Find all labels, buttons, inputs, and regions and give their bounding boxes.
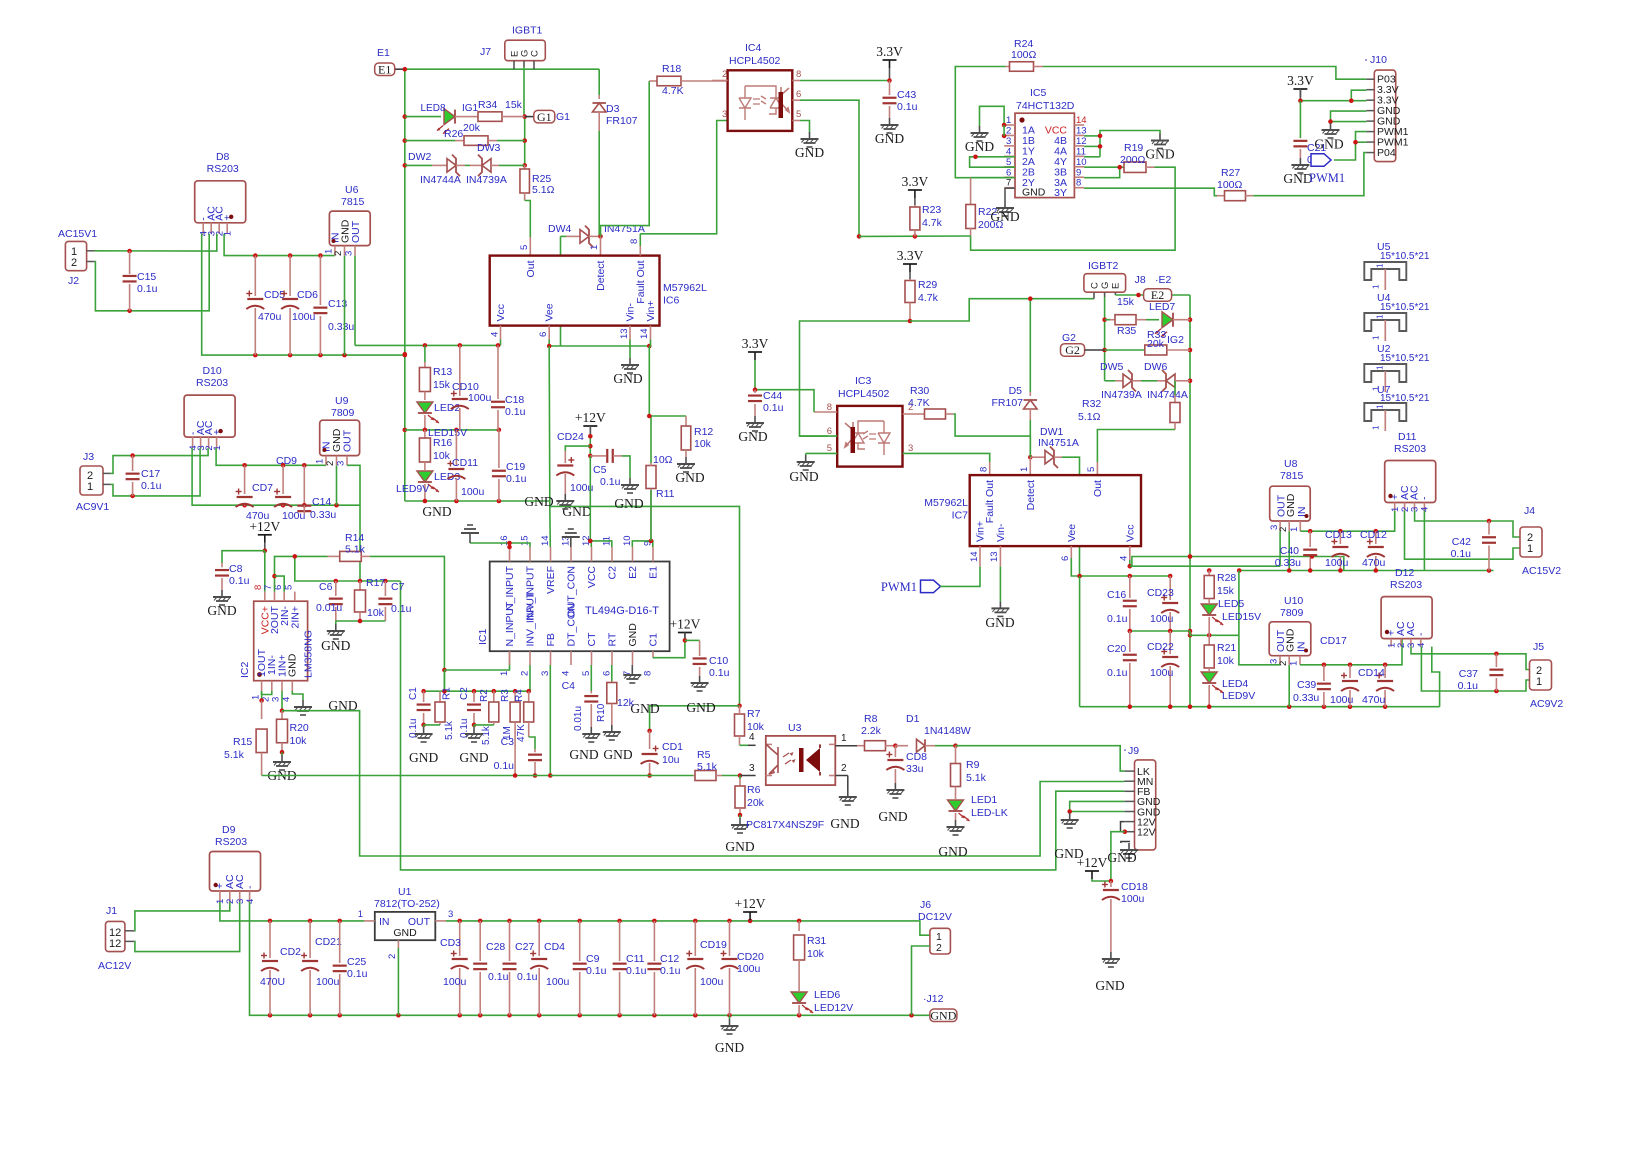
connector J9 [1135,760,1156,850]
IC3 interior optocoupler glyphs [845,421,890,455]
svg-text:GND: GND [1314,137,1343,152]
svg-text:Detect: Detect [1025,480,1037,510]
wire detect pin1 IC6 [600,236,602,255]
capacitor CD2 470U [269,921,271,958]
wire J10 GND pins [1331,111,1367,123]
svg-text:U9: U9 [335,395,349,407]
svg-text:G1: G1 [537,110,552,124]
svg-text:D12: D12 [1395,567,1414,579]
svg-text:Fault Out: Fault Out [635,260,647,303]
svg-text:LED2: LED2 [434,402,460,414]
svg-text:GND: GND [789,469,818,484]
svg-text:GND: GND [795,145,824,160]
svg-text:2: 2 [936,942,942,954]
svg-text:3: 3 [448,909,453,920]
wire D1 to LK node [935,745,956,747]
svg-text:GND: GND [569,747,598,762]
capacitor C42 0.1u [1488,521,1490,535]
svg-text:14: 14 [1076,115,1087,126]
svg-text:CD8: CD8 [906,751,927,763]
svg-text:D11: D11 [1398,431,1417,443]
svg-text:14: 14 [639,328,650,339]
svg-text:DW2: DW2 [408,151,431,163]
svg-text:R11: R11 [656,488,675,500]
regulator U9 7809 [320,420,360,455]
wire U10 IN rail from D12 [1300,640,1402,665]
wire PWM1 to J10 [1334,132,1366,160]
svg-text:GND: GND [725,839,754,854]
resistor R6 20k [739,776,741,780]
resistor R25 5.1R [524,165,526,170]
svg-text:IN4739A: IN4739A [466,174,507,186]
svg-text:IN4739A: IN4739A [1101,389,1142,401]
svg-text:2IN+: 2IN+ [290,606,302,628]
capacitor C13 0.33u [319,256,321,305]
zener DW2 IN4744A [405,164,432,166]
svg-text:R31: R31 [807,935,826,947]
wire D9 minus to GND rail [250,902,930,1015]
wire IC5 pin10,9 tie to R19 [1084,166,1124,168]
svg-text:10k: 10k [367,607,385,619]
ground CD18 [1110,952,1112,959]
svg-text:GND: GND [321,638,350,653]
svg-text:0.1u: 0.1u [488,971,509,983]
svg-text:R4: R4 [514,689,525,702]
IC IC6 M57962L box [490,256,660,326]
ground C43 [889,118,891,125]
svg-text:GND: GND [627,623,639,647]
capacitor CD5 470u [254,256,256,296]
svg-text:PWM1: PWM1 [881,580,917,594]
svg-text:0.1u: 0.1u [494,760,515,772]
svg-text:OUT: OUT [1275,494,1287,517]
svg-text:100u: 100u [1150,613,1174,625]
wire R32 to IC7 Out pin5 [1097,430,1175,463]
bridge rectifier D9 RS203 [210,852,261,892]
svg-text:R30: R30 [910,385,929,397]
capacitor CD24 100u [565,446,590,451]
svg-text:0.1u: 0.1u [506,473,527,485]
connector J1 AC12V [106,921,125,951]
svg-text:1: 1 [1289,527,1300,532]
LED LED3 [417,471,433,482]
svg-text:15k: 15k [433,379,451,391]
svg-text:R20: R20 [290,722,309,734]
svg-text:0.1u: 0.1u [586,965,607,977]
svg-text:Vin+: Vin+ [975,521,987,542]
svg-text:C42: C42 [1452,536,1471,548]
svg-text:GND: GND [738,429,767,444]
resistor R3 1M [514,691,516,702]
power flag +12V bottom [743,911,757,913]
power flag 3.3V J10 [1293,88,1307,90]
svg-text:IN: IN [379,916,390,928]
svg-text:C10: C10 [709,655,728,667]
capacitor C20 0.1u [1129,631,1131,652]
resistor R29 4.7k + 3.3V flag [903,263,917,265]
svg-text:HCPL4502: HCPL4502 [838,388,890,400]
resistor R9 5.1k [955,746,957,763]
svg-text:GND: GND [830,816,859,831]
svg-text:14: 14 [540,535,551,546]
resistor R18 4.7K [601,81,650,236]
power flag +12V C10 [678,632,692,634]
svg-text:C18: C18 [505,394,524,406]
wire TL494 pin6 RT to R10 [611,665,613,681]
svg-text:CD14: CD14 [1358,667,1385,679]
svg-text:C12: C12 [660,953,679,965]
IC2 bottom pin stubs [261,681,263,691]
svg-text:GND: GND [985,615,1014,630]
svg-text:2: 2 [333,251,344,256]
wire 12V to +12V CD18 [1111,832,1125,881]
wire U1 GND to rail [397,948,399,1015]
svg-text:1: 1 [1375,365,1384,370]
svg-text:R28: R28 [1217,572,1236,584]
svg-text:GND: GND [459,750,488,765]
resistor R22 200R [970,178,972,205]
svg-text:CD1: CD1 [662,741,683,753]
wire TL494 pin5 CT to C4 [590,665,592,691]
wire Vee riser to 0V rail [1079,576,1081,707]
svg-text:3.3V: 3.3V [902,174,929,189]
wire IC6 Vin- pin13 to GND [629,340,631,359]
bridge rectifier D11 RS203 [1385,461,1436,503]
svg-text:GND: GND [938,844,967,859]
svg-text:CD11: CD11 [452,457,478,469]
svg-text:GND: GND [1095,978,1124,993]
svg-text:G2: G2 [1062,332,1076,344]
wire LK row to J9 [956,746,1125,771]
net flag GND J12 [930,1009,957,1022]
wire IC3 pin5 to GND [806,452,838,454]
svg-text:5.1k: 5.1k [481,725,492,745]
wire IC4 pin6 row to collector column [792,99,800,101]
svg-text:4.7k: 4.7k [918,292,939,304]
wire R20 node to MN bus [282,711,1124,856]
svg-text:AC15V1: AC15V1 [58,228,97,240]
wire LED9V rail [405,501,740,706]
wire IC7 Vin- to GND [999,567,1001,602]
wire J2 pin1 rail [95,234,217,251]
svg-text:GND: GND [524,494,553,509]
svg-text:IC5: IC5 [1030,87,1047,99]
wire U10 GND to 0V rail [1288,665,1290,707]
svg-text:+12V: +12V [669,617,700,632]
svg-text:J8: J8 [1135,274,1146,286]
svg-text:CD20: CD20 [737,951,764,963]
ground C21 [1299,158,1301,165]
svg-text:C20: C20 [1107,643,1126,655]
capacitor CD14 470u [1384,665,1386,678]
svg-text:3.3V: 3.3V [1287,73,1314,88]
svg-text:GND: GND [603,747,632,762]
resistor R10 12k [611,681,613,683]
svg-text:IGBT2: IGBT2 [1088,260,1119,272]
svg-text:200Ω: 200Ω [1120,154,1146,166]
svg-text:-: - [1419,496,1431,500]
svg-text:R35: R35 [1117,325,1136,337]
wire J9 12V pins bracket [1121,822,1125,832]
IC IC4 HCPL4502 box [728,70,793,131]
svg-text:1: 1 [1289,661,1300,666]
wire emitter row E1 [405,68,599,70]
svg-text:12: 12 [109,938,121,950]
svg-text:R14: R14 [345,532,364,544]
power flag +12V C8 [258,534,272,536]
bridge rectifier D8 RS203 [195,181,246,223]
capacitor C8 0.1u [221,563,223,567]
svg-text:LED7: LED7 [1149,301,1175,313]
capacitor C44 0.1u + 3.3V [748,351,762,353]
wire J3 pin1 rail [111,448,201,496]
svg-text:3.3V: 3.3V [897,248,924,263]
svg-text:D5: D5 [1009,385,1023,397]
svg-text:LED6: LED6 [814,989,840,1001]
capacitor CD21 100u [309,921,311,958]
wire J9 GND pins [1070,801,1125,811]
svg-text:CD3: CD3 [440,937,461,949]
svg-text:IC4: IC4 [745,42,762,54]
resistor R4 47K [528,691,530,702]
wire IC3 pin6 row [800,435,838,437]
wire IC6 Vcc pin4 to +15V rail [500,340,502,346]
svg-text:3: 3 [908,443,913,454]
IC2 top pin stubs [264,592,266,602]
svg-text:1: 1 [499,671,510,676]
svg-text:5.1Ω: 5.1Ω [532,184,555,196]
wire riser 15V2 0V to LED rail [1238,571,1240,636]
resistor R28 15k [1208,571,1210,576]
svg-text:6: 6 [1060,556,1071,561]
capacitor C21 0.1u [1299,101,1301,138]
svg-text:R5: R5 [697,749,711,761]
wire IGBT1 pins [513,61,515,69]
svg-text:10k: 10k [807,948,825,960]
svg-text:1: 1 [1375,263,1384,268]
svg-text:0.1u: 0.1u [505,406,526,418]
wire IC6 Vee pin6 [548,340,550,347]
svg-text:R2: R2 [479,689,490,702]
junction dot R7 top [737,704,742,709]
svg-text:LED15V: LED15V [1222,611,1261,623]
ground R12 [685,457,687,464]
svg-text:0.1u: 0.1u [347,968,368,980]
resistor R34 15k [462,116,478,118]
IC4 interior optocoupler glyphs [739,86,789,120]
svg-text:R27: R27 [1221,167,1240,179]
wire TL494 pin1 net down [443,670,445,691]
svg-text:10Ω: 10Ω [653,454,673,466]
wire +12V to C8 [222,551,265,563]
capacitor C7 0.1u [384,581,386,596]
regulator U1 7812 [375,912,436,940]
svg-text:10k: 10k [290,735,308,747]
svg-text:20k: 20k [747,797,765,809]
svg-text:7815: 7815 [1280,470,1304,482]
svg-text:·E2: ·E2 [1155,274,1172,286]
svg-text:11: 11 [1076,146,1086,157]
capacitor C3 0.1u [529,737,535,749]
ground R10 [611,725,613,732]
connector J3 AC9V1 [80,466,103,495]
svg-text:J9: J9 [1128,745,1139,757]
wire U3 pin1 to R8 [835,745,857,747]
wire R7 to U3 pin4 [748,744,756,746]
svg-text:2: 2 [1006,125,1011,136]
svg-text:IG1: IG1 [462,103,479,114]
svg-text:0.1u: 0.1u [1107,667,1128,679]
connector J6 DC12V [930,928,951,954]
zener DW1 IN4751A [1030,456,1045,458]
svg-text:2: 2 [841,763,847,774]
svg-text:-: - [244,885,256,889]
diode D5 FR107 [1029,299,1031,392]
LED LED4 [1201,672,1217,683]
wire G2 column [1104,297,1106,381]
svg-text:GND: GND [287,653,299,677]
wire jog to LED rail [1190,631,1239,635]
rail C6 bottom to GND [336,620,386,622]
wire +12V to IC2 VCC pin8 [264,551,266,592]
LED LED8 [405,116,441,118]
svg-text:Vee: Vee [1066,524,1078,542]
svg-text:R15: R15 [233,736,252,748]
IC IC7 M57962L box [970,475,1141,546]
svg-text:Vin-: Vin- [995,523,1007,542]
svg-text:3: 3 [344,251,355,256]
svg-text:0.1u: 0.1u [600,476,621,488]
capacitor CD18 100u [1110,881,1112,887]
svg-text:C19: C19 [506,461,525,473]
svg-text:Vcc: Vcc [495,304,507,322]
svg-text:1: 1 [1375,404,1384,409]
svg-text:R23: R23 [922,204,941,216]
resistor R12 10k [685,416,687,426]
resistor R16 10k [424,430,426,438]
wire D11 plus to U8 IN rail [1300,511,1394,532]
svg-text:4.7K: 4.7K [662,85,684,97]
svg-text:10k: 10k [433,450,451,462]
connector J5 AC9V2 [1530,660,1552,690]
svg-text:4: 4 [1119,556,1130,561]
ground C4 [590,727,592,734]
svg-text:0.1u: 0.1u [1458,680,1479,692]
capacitor C10 0.1u [685,639,700,641]
resistor R19 200R [1124,162,1146,173]
capacitor C17 0.1u [132,456,134,471]
capacitor CD4 100u [538,921,540,956]
net flag PWM1 to Vin+ [921,580,941,593]
svg-text:15k: 15k [1217,585,1235,597]
svg-text:12k: 12k [617,697,635,709]
svg-text:14: 14 [969,551,980,562]
svg-text:5.1Ω: 5.1Ω [1078,411,1101,423]
wire divider rail to FB bus [401,581,1125,870]
wire IGBT2 pins [1093,292,1095,299]
svg-text:470u: 470u [1362,694,1386,706]
svg-text:GND: GND [422,504,451,519]
capacitor C27 0.1u [509,921,511,961]
capacitor CD8 33u [894,746,896,757]
svg-text:GND: GND [1145,147,1174,162]
svg-text:Out: Out [525,260,537,277]
wire TL494 pin14 VREF to rail [549,506,552,547]
svg-text:7809: 7809 [331,407,355,419]
svg-text:C28: C28 [486,941,505,953]
wire IC3 pin3 to IC7 fault pin8 [903,453,990,462]
svg-text:100u: 100u [316,976,340,988]
svg-text:1: 1 [358,909,363,920]
svg-text:2: 2 [387,954,398,959]
LED LED7 [1146,319,1159,321]
svg-text:100u: 100u [1150,667,1174,679]
resistor R15 5.1k [261,701,263,720]
ground C5 [629,478,631,485]
svg-text:7812(TO-252): 7812(TO-252) [374,898,440,910]
wire TL494 pins 12,11 bracket [590,541,591,547]
diode D3 FR107 [598,69,600,95]
svg-text:C5: C5 [593,464,607,476]
svg-text:6: 6 [1006,167,1011,178]
svg-text:C: C [530,50,541,57]
svg-text:100u: 100u [292,311,316,323]
wire U8 OUT riser to Vcc line [1279,531,1281,566]
svg-text:LED5: LED5 [1218,598,1244,610]
capacitor C37 0.1u [1495,654,1497,667]
resistor R14 5.1k [328,555,340,557]
junction dots G1 column [522,114,527,119]
svg-text:D8: D8 [216,151,230,163]
svg-text:4: 4 [490,332,501,337]
svg-text:LED4: LED4 [1222,678,1248,690]
svg-text:TL494G-D16-T: TL494G-D16-T [585,605,659,617]
IC6 bottom pin stubs [500,326,502,340]
resistor R33 20k [1105,349,1145,351]
svg-text:GND: GND [562,504,591,519]
svg-text:CD17: CD17 [1320,635,1347,647]
connector J7 IGBT1 [505,40,546,61]
IC5 left pin stubs [1004,124,1015,126]
wire J2 pin2 rail [95,234,209,311]
net flag E1 [395,68,405,70]
capacitor C12 0.1u [653,921,655,961]
svg-text:1: 1 [841,733,847,744]
svg-text:C14: C14 [312,496,331,508]
wire detect pin1 IC7 [1029,457,1031,475]
wire D11 minus to 0V rail [1423,511,1425,571]
connector J2 AC15V1 [65,241,86,270]
svg-text:DW4: DW4 [548,223,571,235]
svg-text:C17: C17 [141,468,160,480]
capacitor C4 0.01u [590,691,592,694]
svg-text:GND: GND [686,700,715,715]
svg-text:LM358NG: LM358NG [303,630,315,678]
svg-text:D10: D10 [202,365,221,377]
svg-text:RS203: RS203 [215,836,247,848]
TL494 bottom pins [509,651,511,665]
wire R30 to detect dot [954,414,1031,457]
wire E1 vertical bus [404,69,406,501]
svg-text:1: 1 [1006,115,1011,126]
resistor R35 15k [1105,319,1110,321]
svg-text:0.33u: 0.33u [1293,692,1319,704]
wire C2 R2 bottoms [474,724,494,726]
diode D1 1N4148W [895,745,908,747]
wire R14 left to IC2 pin7 [275,556,328,591]
svg-text:0.1u: 0.1u [626,965,647,977]
svg-text:C43: C43 [897,89,916,101]
